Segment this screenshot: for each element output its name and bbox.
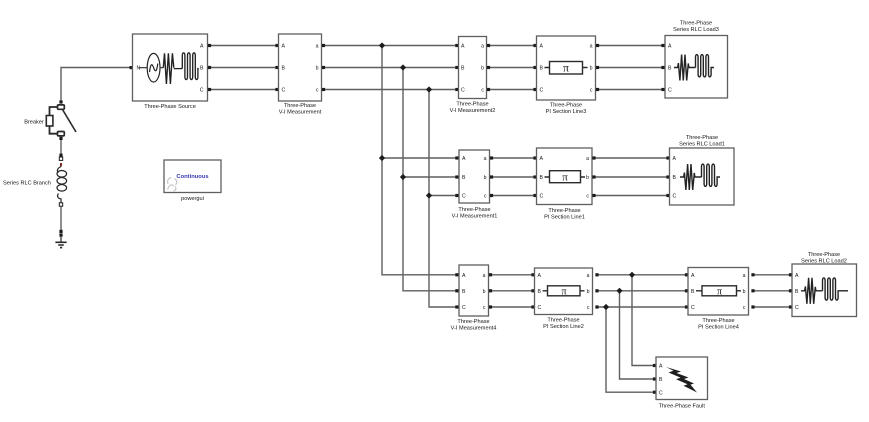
svg-text:Three-Phase: Three-Phase xyxy=(456,102,488,108)
wire PI line2 c to PI line4 C xyxy=(595,305,688,308)
svg-text:b: b xyxy=(316,66,319,72)
svg-text:A: A xyxy=(282,44,286,50)
svg-text:a: a xyxy=(481,44,484,50)
svg-text:Three-Phase Source: Three-Phase Source xyxy=(144,104,196,110)
svg-text:B: B xyxy=(538,289,542,295)
svg-text:a: a xyxy=(743,273,746,279)
svg-text:c: c xyxy=(587,305,590,311)
wire breaker to Series RLC Branch xyxy=(59,137,62,157)
svg-text:Three-Phase: Three-Phase xyxy=(702,318,734,324)
svg-text:c: c xyxy=(481,88,484,94)
junction phase A row2 xyxy=(379,155,385,161)
wire PI line2 a to PI line4 A xyxy=(595,273,688,276)
svg-text:a: a xyxy=(590,44,593,50)
wire PI line1 a to load1 A xyxy=(592,156,669,159)
block: Three-Phase PI Section Line1 xyxy=(537,148,593,221)
wire measurement2 b to PI line3 B xyxy=(487,66,537,69)
wire PI line1 c to load1 C xyxy=(592,194,669,197)
svg-text:a: a xyxy=(587,273,590,279)
load2 icon: resistor zigzag + inductor coil xyxy=(801,278,841,304)
svg-text:B: B xyxy=(282,66,286,72)
wire PI line3 a to load3 A xyxy=(596,44,665,47)
svg-text:A: A xyxy=(461,44,465,50)
junction phase B row2 xyxy=(400,174,406,180)
ground G1 xyxy=(55,233,66,248)
block: Three-Phase Source xyxy=(130,34,208,110)
svg-text:a: a xyxy=(586,156,589,162)
wire measurement1 c to PI line1 C xyxy=(490,194,537,197)
wire measurement1 b to PI line1 B xyxy=(490,175,537,178)
svg-text:B: B xyxy=(540,175,544,181)
svg-text:A: A xyxy=(538,273,542,279)
breaker B1 xyxy=(24,105,76,136)
svg-text:C: C xyxy=(282,88,286,94)
svg-text:PI Section Line4: PI Section Line4 xyxy=(698,325,739,331)
junction fault phase A xyxy=(629,272,635,278)
svg-text:b: b xyxy=(587,289,590,295)
svg-text:a: a xyxy=(316,44,319,50)
source icon: sine in ellipse + two coils xyxy=(139,67,148,69)
wire measurement4 c to PI line2 C xyxy=(489,305,535,308)
load1 icon: resistor zigzag + inductor coil xyxy=(680,164,720,190)
svg-text:b: b xyxy=(484,175,487,181)
block: Three-Phase V-I Measurement xyxy=(279,34,322,116)
junction phase A row1 xyxy=(379,42,385,48)
svg-text:A: A xyxy=(462,156,466,162)
svg-text:PI Section Line2: PI Section Line2 xyxy=(543,324,584,330)
junction phase B row1 xyxy=(400,64,406,70)
svg-text:Three-Phase: Three-Phase xyxy=(686,135,718,141)
svg-text:A: A xyxy=(200,44,204,50)
load3 icon: resistor zigzag + inductor coil xyxy=(674,55,714,81)
block: Three-Phase Series RLC Load1 xyxy=(670,135,735,205)
wire measurement c to measurement2 C (bus phase C) xyxy=(322,88,459,91)
junction fault phase B xyxy=(616,288,622,294)
svg-text:A: A xyxy=(462,273,466,279)
svg-text:powergui: powergui xyxy=(181,196,204,202)
svg-text:b: b xyxy=(483,289,486,295)
wire measurement a to measurement2 A (bus phase A) xyxy=(322,44,459,47)
svg-text:Series RLC Load2: Series RLC Load2 xyxy=(801,259,847,265)
block: Three-Phase PI Section Line2 xyxy=(535,268,593,330)
svg-text:c: c xyxy=(743,305,746,311)
wire source A to measurement A xyxy=(208,44,279,47)
svg-text:Three-Phase Fault: Three-Phase Fault xyxy=(659,404,706,410)
wire from source N to breaker xyxy=(59,66,132,104)
svg-text:C: C xyxy=(461,88,465,94)
svg-text:C: C xyxy=(200,88,204,94)
junction phase C row2 xyxy=(426,192,432,198)
svg-text:π: π xyxy=(717,287,722,298)
wire PI line2 b to PI line4 B xyxy=(595,289,688,292)
svg-text:C: C xyxy=(691,305,695,311)
wire PI line4 c to load2 C xyxy=(751,305,792,308)
svg-text:B: B xyxy=(462,289,466,295)
svg-text:b: b xyxy=(586,175,589,181)
series RLC branch (inductor) xyxy=(3,157,67,206)
wire source B to measurement B xyxy=(208,66,279,69)
wire vertical bus phase C down to row2 and row3 xyxy=(429,90,459,309)
svg-text:C: C xyxy=(795,305,799,311)
svg-text:Series RLC Branch: Series RLC Branch xyxy=(3,181,51,187)
block: Three-Phase V-I Measurement1 xyxy=(452,150,498,220)
wire PI line4 a to load2 A xyxy=(751,273,792,276)
svg-text:A: A xyxy=(673,156,677,162)
svg-text:B: B xyxy=(200,66,204,72)
svg-text:C: C xyxy=(462,194,466,200)
svg-text:c: c xyxy=(483,305,486,311)
wire measurement2 c to PI line3 C xyxy=(487,88,537,91)
wire measurement4 b to PI line2 B xyxy=(489,289,535,292)
wire measurement2 a to PI line3 A xyxy=(487,44,537,47)
block: Three-Phase Fault xyxy=(656,357,708,410)
svg-text:B: B xyxy=(795,289,799,295)
svg-text:c: c xyxy=(586,194,589,200)
svg-text:Series RLC Load3: Series RLC Load3 xyxy=(673,27,719,33)
svg-text:Three-Phase: Three-Phase xyxy=(547,318,579,324)
wire fault branch phase A down to fault A xyxy=(632,275,656,367)
block: Three-Phase Series RLC Load2 xyxy=(792,252,857,317)
svg-text:Three-Phase: Three-Phase xyxy=(808,252,840,258)
svg-text:A: A xyxy=(795,273,799,279)
wire fault branch phase C down to fault C xyxy=(606,307,656,394)
svg-text:b: b xyxy=(481,66,484,72)
svg-text:V-I Measurement1: V-I Measurement1 xyxy=(452,214,498,220)
svg-text:C: C xyxy=(538,305,542,311)
svg-text:π: π xyxy=(561,287,566,298)
wire RLC branch to ground xyxy=(59,207,62,234)
svg-text:N: N xyxy=(137,66,141,72)
svg-text:C: C xyxy=(668,88,672,94)
svg-text:Three-Phase: Three-Phase xyxy=(457,319,489,325)
wire PI line4 b to load2 B xyxy=(751,289,792,292)
block: Three-Phase Series RLC Load3 xyxy=(665,21,728,99)
svg-text:A: A xyxy=(691,273,695,279)
svg-text:π: π xyxy=(563,63,569,75)
wire source C to measurement C xyxy=(208,88,279,91)
svg-text:Series RLC Load1: Series RLC Load1 xyxy=(679,142,725,148)
wire PI line3 b to load3 B xyxy=(596,66,665,69)
svg-text:C: C xyxy=(659,390,663,396)
svg-text:c: c xyxy=(316,88,319,94)
wire measurement4 a to PI line2 A xyxy=(489,273,535,276)
svg-text:C: C xyxy=(673,194,677,200)
svg-text:Three-Phase: Three-Phase xyxy=(548,208,580,214)
wire vertical bus phase A down to row2 and row3 xyxy=(382,46,459,277)
svg-text:B: B xyxy=(461,66,465,72)
svg-text:A: A xyxy=(540,44,544,50)
svg-text:B: B xyxy=(540,66,544,72)
svg-text:Breaker: Breaker xyxy=(24,120,44,126)
svg-text:V-I Measurement4: V-I Measurement4 xyxy=(451,326,497,332)
svg-text:C: C xyxy=(540,88,544,94)
wire vertical bus phase B down to row2 and row3 xyxy=(403,68,459,293)
svg-text:a: a xyxy=(484,156,487,162)
svg-text:B: B xyxy=(673,175,677,181)
block: Three-Phase V-I Measurement2 xyxy=(450,37,496,115)
wire fault branch phase B down to fault B xyxy=(620,291,657,381)
svg-text:V-I Measurement: V-I Measurement xyxy=(279,110,322,116)
svg-text:Three-Phase: Three-Phase xyxy=(284,103,316,109)
wire PI line3 c to load3 C xyxy=(596,88,665,91)
svg-text:B: B xyxy=(659,377,663,383)
svg-text:C: C xyxy=(540,194,544,200)
svg-text:A: A xyxy=(668,44,672,50)
svg-text:a: a xyxy=(483,273,486,279)
svg-text:Continuous: Continuous xyxy=(176,174,208,180)
svg-text:V-I Measurement2: V-I Measurement2 xyxy=(450,108,496,114)
fault icon: lightning bolt xyxy=(666,367,697,393)
svg-text:C: C xyxy=(462,305,466,311)
wire measurement b to measurement2 B (bus phase B) xyxy=(322,66,459,69)
svg-text:B: B xyxy=(462,175,466,181)
svg-text:Three-Phase: Three-Phase xyxy=(680,21,712,27)
powergui block xyxy=(164,160,221,202)
svg-text:π: π xyxy=(562,172,568,184)
junction phase C row1 xyxy=(426,86,432,92)
block: Three-Phase PI Section Line4 xyxy=(688,268,749,331)
block: Three-Phase PI Section Line3 xyxy=(537,36,596,115)
wire measurement1 a to PI line1 A xyxy=(490,156,537,159)
svg-text:A: A xyxy=(659,364,663,370)
svg-text:Three-Phase: Three-Phase xyxy=(550,103,582,109)
block: Three-Phase V-I Measurement4 xyxy=(451,265,497,332)
svg-text:c: c xyxy=(484,194,487,200)
svg-text:B: B xyxy=(668,66,672,72)
svg-text:b: b xyxy=(743,289,746,295)
svg-text:PI Section Line3: PI Section Line3 xyxy=(546,109,587,115)
svg-text:Three-Phase: Three-Phase xyxy=(458,207,490,213)
svg-text:A: A xyxy=(540,156,544,162)
svg-text:c: c xyxy=(590,88,593,94)
svg-text:PI Section Line1: PI Section Line1 xyxy=(544,215,585,221)
junction fault phase C xyxy=(603,304,609,310)
svg-text:b: b xyxy=(590,66,593,72)
wire PI line1 b to load1 B xyxy=(592,175,669,178)
svg-text:B: B xyxy=(691,289,695,295)
